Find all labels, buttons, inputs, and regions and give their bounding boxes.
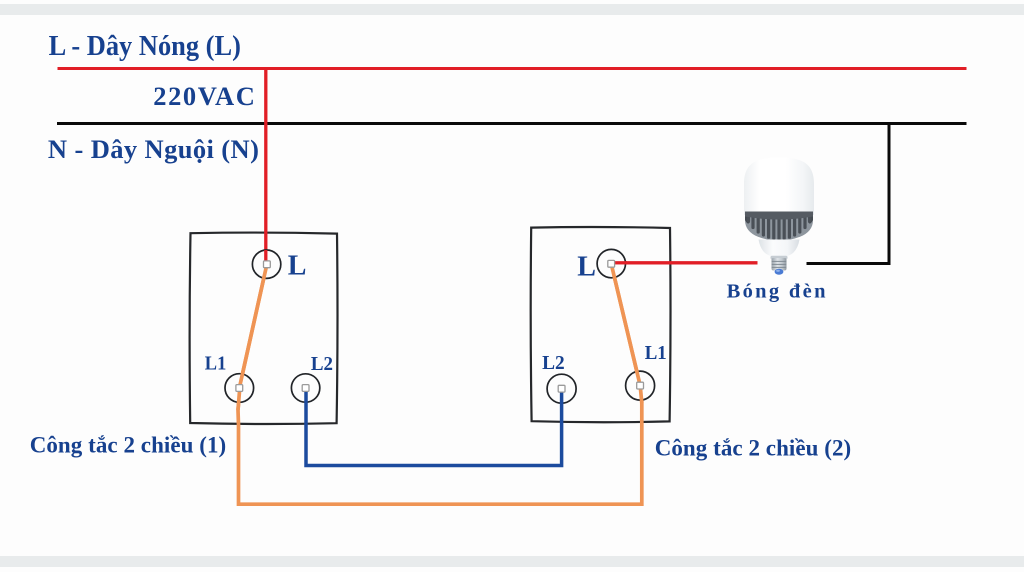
svg-text:L - Dây Nóng (L): L - Dây Nóng (L) bbox=[49, 31, 241, 62]
svg-text:L1: L1 bbox=[205, 353, 227, 375]
svg-text:220VAC: 220VAC bbox=[153, 81, 255, 111]
svg-text:N - Dây Nguội (N): N - Dây Nguội (N) bbox=[48, 134, 259, 164]
svg-text:L: L bbox=[288, 251, 307, 282]
svg-text:L2: L2 bbox=[542, 352, 565, 374]
svg-text:L: L bbox=[577, 251, 596, 282]
svg-text:L1: L1 bbox=[645, 342, 667, 364]
svg-text:Công tắc 2 chiều (2): Công tắc 2 chiều (2) bbox=[655, 436, 852, 461]
svg-text:Công tắc 2 chiều (1): Công tắc 2 chiều (1) bbox=[30, 433, 227, 458]
svg-text:L2: L2 bbox=[311, 353, 333, 375]
